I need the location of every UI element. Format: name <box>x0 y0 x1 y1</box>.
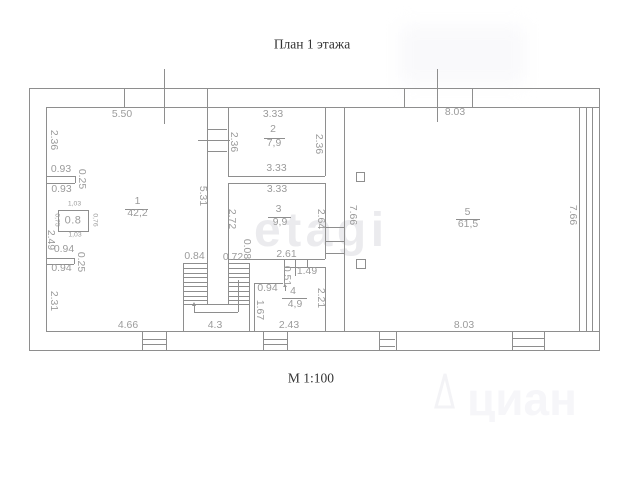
niche1 right <box>75 176 76 183</box>
dim 2.64 room3 right <box>315 209 325 229</box>
closet <box>58 210 89 232</box>
dim 0.93 upper <box>51 164 71 174</box>
room3 fraction line <box>268 217 292 218</box>
dim 2.36 room2 left <box>228 132 238 152</box>
dim 2.43 <box>279 320 299 330</box>
watermark etagi <box>254 207 389 255</box>
dim 2.31 left wall <box>48 291 58 311</box>
room5 window mullion x592 <box>592 107 593 331</box>
wall tick y240 <box>325 241 344 242</box>
scale label <box>288 371 334 385</box>
room5 window mullion x585 <box>586 107 587 331</box>
top wall tick x404 <box>404 88 405 107</box>
room2 bottom wall <box>228 176 325 177</box>
room2 fraction line <box>264 138 285 139</box>
stair direction line up <box>194 305 195 312</box>
room3 top wall <box>228 183 325 184</box>
section marker x437 <box>437 69 438 122</box>
window W1 <box>142 331 143 351</box>
stair arrow head <box>192 302 196 306</box>
dim 0.25 lower <box>74 252 84 272</box>
svg-text:циан: циан <box>467 373 577 422</box>
dim 3.33 room2 top <box>263 109 283 119</box>
niche1 top <box>46 176 75 177</box>
outlet square 2 <box>356 259 366 270</box>
room2 door jamb tick top <box>207 129 228 130</box>
dim 0.76 closet right <box>90 213 97 226</box>
dim 0.84 <box>184 251 204 261</box>
room3/stair left wall x227 lower <box>228 183 229 304</box>
top wall tick x472 <box>472 88 473 107</box>
wall tick y226 <box>325 227 344 228</box>
stairs bottom landing line <box>183 304 249 305</box>
outer wall bottom <box>29 350 600 351</box>
outlet square 1 <box>356 172 365 182</box>
dim 5.50 <box>112 109 132 119</box>
dim 2.36 room2 right <box>312 133 322 153</box>
room2 area <box>267 138 281 148</box>
dim 1.03 closet bottom <box>68 232 81 239</box>
window W3 <box>379 331 380 351</box>
room1 fraction line <box>125 209 148 210</box>
room2 left wall x227 upper <box>228 107 229 176</box>
watermark cian triangle <box>428 366 588 422</box>
dim 8.03 top <box>445 107 465 117</box>
room2 number <box>270 125 276 135</box>
inner bottom line <box>46 331 599 332</box>
inner top line <box>46 107 599 108</box>
dim 0.94 lower <box>51 264 71 274</box>
dim 2.49 left wall <box>45 230 55 250</box>
niche1 bottom <box>46 183 75 184</box>
room1 number <box>135 197 141 207</box>
dim 2.21 room4 right <box>315 288 325 308</box>
dim 0.93 lower <box>51 184 71 194</box>
room5 number <box>465 208 471 218</box>
niche2 top <box>46 258 74 259</box>
outer wall right <box>599 88 600 351</box>
outer wall left <box>29 88 30 351</box>
room5 window mullion x579 <box>579 107 580 331</box>
stairs steps right flight <box>228 263 249 264</box>
room4 top wall <box>284 267 325 268</box>
room4 upper-left wall <box>254 283 283 284</box>
room1 left inner wall <box>46 107 47 331</box>
stairs left flight left edge <box>183 263 184 331</box>
wall tick y253 <box>325 253 344 254</box>
dim 1.67 room4 left <box>253 300 263 320</box>
room2 door jamb tick bottom <box>207 151 228 152</box>
dim 3.33 room3 top <box>267 184 287 194</box>
room4 fraction line <box>282 298 308 299</box>
dim 1.49 <box>297 266 317 276</box>
top wall tick x124 <box>124 88 125 107</box>
dim 0.94 upper <box>54 244 74 254</box>
closet area 0.8 <box>65 215 82 226</box>
dim 0.51 <box>281 265 291 285</box>
dim 1.03 closet top <box>68 201 81 208</box>
room4 right wall <box>325 267 326 331</box>
dim 0.72 <box>223 253 243 263</box>
room1 area <box>127 208 147 218</box>
dim 0.94 room4 <box>257 284 277 294</box>
dim 0.25 upper <box>76 169 86 189</box>
dim 7.66 room5 left <box>346 205 356 225</box>
room2 right wall <box>325 107 326 176</box>
window W2 <box>263 331 264 351</box>
dim 7.66 room5 right <box>566 205 576 225</box>
room5 fraction line <box>456 219 479 220</box>
stair direction line right <box>238 280 239 311</box>
room5 left wall <box>344 107 345 331</box>
room3 right wall <box>325 183 326 259</box>
room5 area <box>458 219 478 229</box>
title <box>274 37 350 51</box>
stairs steps left flight <box>183 263 207 264</box>
room4 area <box>288 299 302 309</box>
stair shaft left wall x207 <box>207 88 208 304</box>
dim 2.36 left wall <box>47 130 57 150</box>
room3 number <box>276 204 282 214</box>
room2 door leaf line <box>198 140 230 141</box>
room4 number <box>290 286 296 296</box>
outer wall top <box>29 88 600 89</box>
dim 0.08 <box>240 238 250 258</box>
niche2 right <box>74 258 75 264</box>
dim 0.75 closet left <box>52 213 59 226</box>
dim 4.66 <box>118 320 138 330</box>
room4 jog wall <box>284 259 285 283</box>
dim 2.61 <box>276 249 296 259</box>
room3 area <box>273 217 287 227</box>
door jamb x295 <box>295 259 296 276</box>
stair direction line bottom <box>194 312 238 313</box>
faint wash near title <box>400 26 525 84</box>
dim 3.33 room2 bottom <box>266 163 286 173</box>
dim 2.72 room3 left <box>225 209 235 229</box>
dim 4.3 <box>208 320 222 330</box>
room4 left wall <box>254 283 255 331</box>
small arrow symbol <box>285 286 286 291</box>
door jamb x307 <box>307 259 308 267</box>
window W4 <box>512 331 513 351</box>
dim 5.31 stair wall <box>196 186 206 206</box>
section marker x164 <box>164 69 165 124</box>
niche2 bottom <box>46 264 74 265</box>
dim 8.03 bottom <box>454 320 474 330</box>
room3 bottom wall <box>228 259 325 260</box>
stairs right flight right edge <box>249 263 250 331</box>
